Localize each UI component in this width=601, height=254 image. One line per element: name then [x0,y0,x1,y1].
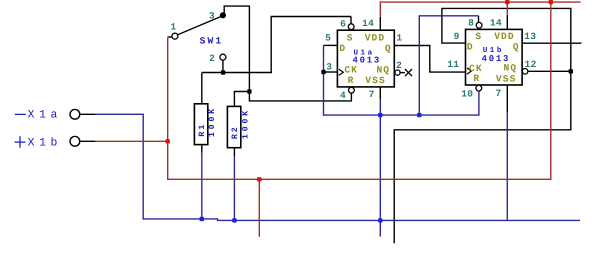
junction [221,70,225,74]
junction [232,218,236,222]
connector X1a [70,109,80,119]
no-connect X on U1a pin2 [405,69,412,76]
wire node to U1a R pin4 [249,92,351,101]
U1b NQ pin12 bubble [522,69,528,75]
svg-text:6: 6 [340,19,346,30]
U1a S pin6 bubble [348,24,354,30]
wire power branch down [258,179,260,237]
svg-text:R: R [473,73,480,84]
svg-text:VDD: VDD [494,31,515,42]
svg-text:14: 14 [362,18,374,29]
wire U1b D9-NQ12 net [394,8,571,243]
wire to U1b S pin8 [419,16,478,115]
junction [417,113,421,117]
svg-text:VSS: VSS [365,75,386,86]
wire power top right [551,1,581,3]
wire U1b Q13 [522,42,581,44]
wire power to U1b VDD [506,2,508,15]
SW1 pin1 stub [167,36,171,38]
wire U1b NQ12 [528,70,571,72]
U1b clock wedge [467,68,471,74]
wire D5-CK3-R10 net [324,45,479,115]
SW1 pin 3 contact [220,12,226,18]
svg-text:1: 1 [170,21,176,32]
svg-text:4013: 4013 [482,54,511,64]
wire SW1 pin3 node [224,6,249,91]
U1a NQ pin2 stub [400,72,405,74]
U1a CK pin3 stub [324,71,338,73]
svg-text:X1b: X1b [28,137,62,150]
svg-text:9: 9 [454,31,460,42]
svg-text:S: S [347,33,354,44]
U1b S pin8 stub [478,16,480,22]
svg-text:7: 7 [369,89,375,100]
SW1 pin 1 contact [172,33,178,39]
junction [378,113,382,117]
svg-text:1: 1 [396,33,402,44]
U1a VSS pin7 stub [379,87,381,100]
svg-text:4013: 4013 [352,56,381,66]
wire U1a Q1 to U1b CK11 [394,46,465,73]
R2 bottom stub [233,148,235,156]
svg-text:4: 4 [340,90,346,101]
X1b pin stub [80,140,96,142]
svg-text:2: 2 [396,60,402,71]
svg-text:100K: 100K [242,108,251,139]
U1b VSS pin7 stub [506,85,508,112]
wire U1b VSS down [506,112,508,220]
wire U1a VSS down [379,100,381,237]
svg-text:12: 12 [525,59,537,70]
flip-flop U1b body [466,29,523,85]
svg-text:Q: Q [385,43,392,54]
junction [378,218,382,222]
wire up to U1a S pin6 [271,17,351,74]
svg-text:100K: 100K [208,106,217,137]
wire X1a net bottom bus [96,114,580,220]
wire node to R2 top [234,92,249,107]
junction [505,0,509,4]
U1a VDD pin14 stub [379,17,381,30]
svg-text:5: 5 [325,33,331,44]
junction [247,89,251,93]
junction [569,69,573,73]
svg-text:VSS: VSS [496,73,517,84]
svg-text:D: D [339,43,346,54]
junction [200,217,204,221]
svg-text:8: 8 [468,18,474,29]
svg-text:R2: R2 [231,125,240,139]
wire pin2 node horizontal [202,72,271,74]
U1a D pin5 stub [324,44,338,46]
U1a R pin4 bubble [349,87,355,93]
svg-text:3: 3 [326,61,332,72]
wire down to R1 top [201,73,203,104]
U1a pin6 stub [350,17,352,24]
svg-text:VDD: VDD [365,33,386,44]
svg-text:13: 13 [524,31,536,42]
wire SW1 pin2 down [222,60,224,72]
svg-text:SW1: SW1 [200,35,224,46]
U1b R pin10 bubble [476,85,482,91]
U1b VDD pin14 stub [506,15,508,29]
U1a clock wedge [339,69,343,75]
svg-text:2: 2 [209,53,215,64]
junction [257,177,261,181]
svg-text:S: S [475,31,482,42]
R1 bottom stub [201,145,203,153]
wire X1b power net [168,2,551,179]
U1b S pin8 bubble [476,22,482,28]
svg-text:14: 14 [490,18,502,29]
svg-text:R: R [348,75,355,86]
resistor R2 [227,106,240,147]
svg-text:R1: R1 [198,123,207,137]
svg-text:3: 3 [209,10,215,21]
svg-text:10: 10 [461,89,473,100]
junction [166,139,170,143]
resistor R1 [194,104,207,145]
wire R2 bottom to bus [233,156,235,220]
U1a NQ pin2 bubble [395,70,400,75]
connector X1b [70,136,80,146]
svg-text:X1a: X1a [28,109,62,121]
svg-text:D: D [467,41,474,52]
wire X1b out [96,140,168,142]
SW1 pin 2 contact [220,54,226,60]
svg-text:Q: Q [513,41,520,52]
junction [549,0,553,4]
SW1 lever [177,16,222,35]
wire R1 bottom to bus [201,153,203,219]
junction [321,70,325,74]
svg-text:NQ: NQ [504,63,518,74]
svg-text:7: 7 [495,88,501,99]
svg-text:11: 11 [447,59,459,70]
X1a pin stub [80,113,96,115]
flip-flop U1a body [337,30,394,87]
